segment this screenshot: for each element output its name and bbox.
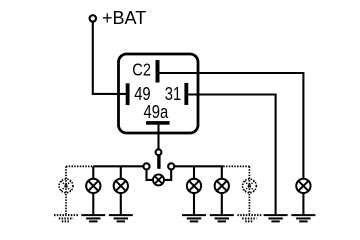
terminal 31 bar: [184, 83, 188, 105]
wire left contact to pilot lamp: [147, 170, 154, 180]
pilot lamp: [153, 174, 164, 185]
trailer lamp left dotted: [59, 179, 73, 193]
wire right lamp bus: [171, 165, 223, 167]
ground lamp R2: [210, 215, 234, 221]
wire dotted trailer lamp left drop: [65, 166, 67, 214]
ground lamp L1: [81, 215, 105, 221]
terminal 49a bar: [146, 121, 170, 125]
wire C2 to right side repeater lamp: [160, 73, 304, 178]
ground trailer lamp right dotted: [237, 215, 261, 221]
terminal 49 bar: [126, 83, 130, 105]
lamp side repeater: [296, 179, 310, 193]
switch right contact: [168, 163, 174, 169]
lamp R1: [187, 179, 201, 193]
wire stub lamp L1: [92, 166, 94, 214]
wire dotted trailer lamp right drop: [248, 166, 250, 214]
wire right contact to pilot lamp: [164, 170, 171, 180]
battery terminal +BAT: [90, 15, 96, 21]
wire 49a to switch: [157, 125, 159, 150]
ground terminal 31: [264, 215, 288, 221]
wire 31 to ground: [188, 95, 275, 215]
ground lamp R1: [182, 215, 206, 221]
ground lamp L2: [109, 215, 133, 221]
switch left contact: [143, 163, 149, 169]
wire dotted left bus to trailer lamp: [66, 165, 93, 167]
wire stub lamp R1: [193, 166, 195, 214]
ground trailer lamp left dotted: [54, 215, 78, 221]
svg-text:C2: C2: [132, 62, 151, 80]
wire dotted right bus to trailer lamp: [223, 165, 249, 167]
wire +BAT to relay terminal 49: [93, 22, 127, 94]
lamp R2: [215, 179, 229, 193]
wire stub lamp R2: [221, 166, 223, 214]
terminal C2 bar: [156, 60, 160, 83]
switch input contact: [156, 149, 162, 155]
lamp L1: [86, 179, 100, 193]
svg-text:+BAT: +BAT: [102, 8, 146, 28]
trailer lamp right dotted: [243, 179, 257, 193]
ground side repeater: [291, 215, 315, 221]
lamp L2: [114, 179, 128, 193]
wire stub side repeater to ground: [302, 193, 304, 215]
wire stub lamp L2: [120, 166, 122, 214]
svg-text:49a: 49a: [144, 101, 169, 122]
relay flasher unit box: [119, 54, 199, 133]
wire left lamp bus: [93, 165, 146, 167]
switch lever: [157, 156, 160, 169]
